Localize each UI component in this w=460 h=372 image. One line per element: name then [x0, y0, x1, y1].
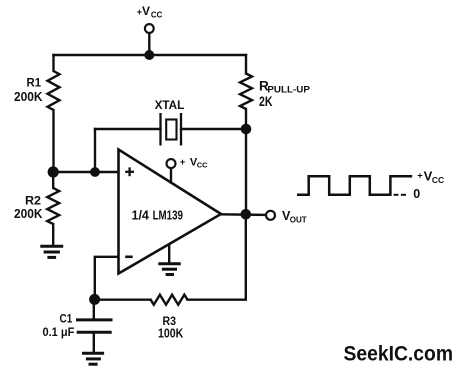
- op-amp +Vcc pin: [170, 168, 172, 183]
- wire (top rail): [54, 54, 247, 56]
- waveform zero-level dashes: [394, 194, 399, 196]
- svg-text:R1: R1: [27, 78, 42, 90]
- wire (left column, rail to R1): [52, 55, 54, 71]
- wire (right column, crystal node to output node): [245, 129, 247, 214]
- svg-text:SeekIC.com: SeekIC.com: [344, 342, 454, 365]
- svg-text:XTAL: XTAL: [155, 98, 185, 112]
- resistor R2: [47, 172, 59, 224]
- svg-text:C1: C1: [60, 313, 73, 325]
- op-amp + input symbol: [125, 171, 134, 173]
- svg-text:1/4: 1/4: [132, 208, 149, 222]
- svg-text:200K: 200K: [14, 89, 43, 104]
- wire (crystal branch, vertical): [94, 129, 96, 172]
- svg-text:CC: CC: [432, 175, 444, 185]
- wire (inverting input): [95, 257, 118, 299]
- wire (crystal branch, right lead): [181, 128, 246, 130]
- svg-text:+: +: [180, 157, 186, 168]
- svg-text:CC: CC: [151, 10, 163, 19]
- output terminal Vout: [266, 211, 275, 220]
- wire (non-inverting input): [53, 171, 118, 173]
- svg-text:CC: CC: [197, 161, 208, 170]
- svg-text:V: V: [142, 4, 150, 18]
- junction node A (R1/R2/non-inverting input): [48, 166, 59, 177]
- svg-text:LM139: LM139: [153, 208, 183, 222]
- wire (crystal branch, left lead): [95, 128, 161, 130]
- ground (R2): [40, 245, 63, 248]
- svg-text:OUT: OUT: [290, 215, 308, 225]
- resistor Rpull-up: [240, 74, 252, 110]
- wire (feedback: output node down and left): [188, 214, 246, 299]
- capacitor C1: [93, 299, 95, 318]
- op-amp U1 (1/4 LM139): [119, 150, 222, 274]
- junction (node A / crystal branch): [90, 167, 100, 177]
- wire (feedback left, R3 to inverting node): [95, 299, 151, 301]
- svg-text:0.1 μF: 0.1 μF: [43, 327, 75, 339]
- junction (crystal / right column): [241, 124, 252, 135]
- svg-text:PULL-UP: PULL-UP: [267, 85, 310, 95]
- svg-text:100K: 100K: [158, 326, 183, 340]
- +Vcc supply terminal: [145, 24, 154, 33]
- svg-text:0: 0: [413, 187, 420, 201]
- wire (right column, Rpullup to crystal node): [245, 109, 247, 129]
- svg-text:200K: 200K: [14, 206, 43, 221]
- resistor R3: [151, 295, 188, 305]
- svg-text:2K: 2K: [259, 94, 273, 109]
- crystal XTAL: [159, 113, 161, 146]
- wire (left column, R1 to node A): [52, 110, 54, 172]
- svg-text:+: +: [417, 171, 423, 182]
- resistor R1: [48, 71, 60, 110]
- wire (output lead): [220, 213, 266, 216]
- waveform (output square wave): [297, 176, 412, 195]
- wire (R2 to ground): [52, 224, 54, 245]
- junction (output node): [241, 209, 252, 220]
- junction (top rail / +Vcc stem): [144, 50, 154, 60]
- wire (right column, rail to Rpullup): [245, 55, 247, 74]
- junction (inverting input node): [89, 294, 100, 305]
- ground (op-amp): [158, 262, 180, 265]
- ground (C1): [82, 352, 104, 355]
- op-amp ground pin: [168, 246, 170, 263]
- op-amp - input symbol: [125, 255, 133, 258]
